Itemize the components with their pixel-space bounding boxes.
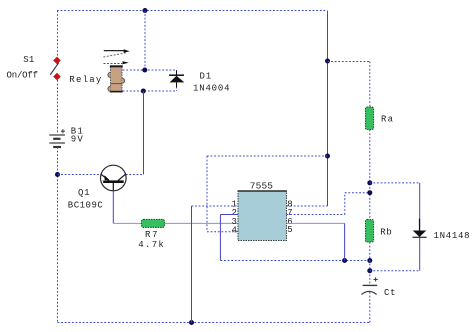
wire diode branch vertical <box>419 183 421 271</box>
wire pin 1 to ground riser <box>192 205 239 207</box>
svg-text:Relay: Relay <box>69 75 102 85</box>
node emitter tap on left rail <box>55 172 60 177</box>
relay contact fixed (lower dashed) <box>104 61 129 64</box>
svg-text:4.7k: 4.7k <box>138 240 164 250</box>
node pin 7 junction <box>367 190 372 195</box>
node relay top junction <box>142 68 147 73</box>
wire relay coil top to D1 <box>123 69 177 71</box>
svg-text:4: 4 <box>232 225 237 235</box>
svg-text:5: 5 <box>287 225 292 235</box>
wire pin 2 drop <box>219 215 221 261</box>
node V+ branch to Ra <box>325 59 330 64</box>
wire battery to bottom-left corner <box>57 147 59 323</box>
resistor Rb <box>366 220 374 243</box>
node pin6 junction <box>342 258 347 263</box>
wire pin 7 horizontal <box>287 214 345 216</box>
wire collector to riser <box>126 174 144 176</box>
wire base drop <box>112 191 114 224</box>
wire bottom rail <box>58 322 370 324</box>
battery B1 <box>49 129 65 147</box>
wire right V+ riser (solid, x=327) <box>327 11 329 207</box>
wire top rail V+ <box>57 10 327 12</box>
wire pin 7 to main vertical <box>345 192 370 194</box>
wire ground riser x=191.5 <box>191 206 193 323</box>
node relay bottom junction <box>141 89 146 94</box>
svg-text:R7: R7 <box>145 230 158 240</box>
wire pin 6 drop <box>344 223 346 260</box>
svg-text:Ra: Ra <box>381 114 394 124</box>
diode D1 <box>169 70 184 91</box>
wire R7 to pin 3 <box>165 222 239 224</box>
transistor Q1 <box>101 165 127 191</box>
svg-text:Rb: Rb <box>380 228 392 238</box>
wire Ra top feed <box>369 62 371 108</box>
node Ct top junction <box>367 268 372 273</box>
resistor R7 <box>142 219 165 227</box>
relay coil <box>108 66 125 92</box>
wire diode branch bottom horizontal <box>370 270 420 272</box>
svg-text:S1: S1 <box>23 55 34 65</box>
wire left rail top (to switch) <box>57 11 59 58</box>
node top rail junction <box>143 8 148 13</box>
svg-text:D1: D1 <box>200 71 212 81</box>
switch S1 <box>50 57 61 81</box>
IC U1 7555 <box>238 191 288 241</box>
wire diode branch top horizontal <box>370 182 420 184</box>
svg-text:Q1: Q1 <box>78 188 90 198</box>
wire Rb to Ct <box>369 242 371 285</box>
wire switch to battery <box>57 80 59 134</box>
svg-text:Ct: Ct <box>384 288 396 298</box>
diode D2 1N4148 <box>413 219 427 238</box>
svg-text:On/Off: On/Off <box>7 71 39 81</box>
wire reset net to pin 4 <box>207 231 238 233</box>
wire trigger net horizontal y=260.5 <box>220 260 369 262</box>
wire pin 7 riser <box>344 193 346 215</box>
node reset tap on V+ riser <box>325 154 330 159</box>
wire relay coil bottom to D1 <box>123 90 177 92</box>
node ground junction bottom rail <box>189 320 194 325</box>
svg-text:9V: 9V <box>71 135 84 145</box>
svg-text:7555: 7555 <box>250 181 273 192</box>
wire reset net horizontal at y=156 <box>207 155 328 157</box>
wire relay drop from top rail <box>144 11 146 71</box>
wire Ra to Rb (main vertical) <box>369 130 371 220</box>
wire collector riser <box>143 91 145 175</box>
wire V+ to Ra horizontal <box>328 61 370 63</box>
node trigger on main vertical <box>367 258 372 263</box>
node diode branch top <box>367 180 372 185</box>
wire pin 6 horizontal <box>287 222 345 224</box>
wire reset net vertical x=207 <box>206 156 208 232</box>
relay contact fixed (top) <box>104 49 130 52</box>
svg-text:1N4004: 1N4004 <box>193 83 230 93</box>
relay contact armature (dashed diagonal) <box>103 53 126 57</box>
wire base to R7 <box>113 222 141 224</box>
capacitor Ct <box>361 277 377 294</box>
wire Ct bottom to rail <box>369 292 371 323</box>
wire pin 8 to V+ riser <box>287 205 328 207</box>
svg-text:BC109C: BC109C <box>68 200 104 210</box>
resistor Ra <box>366 107 374 130</box>
svg-text:1N4148: 1N4148 <box>434 231 470 241</box>
wire pin 2 stub <box>220 214 238 216</box>
wire emitter from left rail <box>58 174 101 176</box>
